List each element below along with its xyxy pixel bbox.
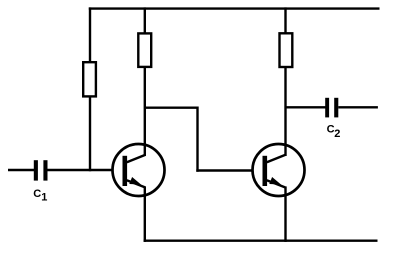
wire coupling horizontal upper — [145, 106, 198, 108]
wire R3/Q2 collector vertical top — [284, 7, 286, 34]
resistor R1 — [83, 62, 96, 96]
resistor R3 — [280, 33, 293, 67]
wire Q2 emitter leg — [284, 186, 286, 242]
wire C1 to Q1 base — [48, 169, 114, 171]
wire top supply rail — [89, 7, 380, 9]
wire Q2 collector to C2 — [286, 106, 327, 108]
wire C2 output lead — [338, 106, 378, 108]
wire R1 top leg — [89, 7, 91, 63]
svg-text:1: 1 — [41, 192, 47, 204]
wire coupling to Q2 base — [196, 169, 253, 171]
wire bottom rail — [144, 239, 378, 241]
transistor Q1 — [113, 144, 165, 196]
svg-text:C: C — [33, 188, 41, 200]
wire R1 bottom leg — [89, 96, 91, 171]
wire C1 input lead — [8, 169, 35, 171]
wire R2 bottom to Q1 collector — [144, 67, 146, 156]
wire R2/Q1 collector vertical top — [144, 7, 146, 34]
capacitor C2 — [325, 98, 338, 118]
capacitor C1 — [34, 160, 48, 180]
wire Q1 emitter leg — [144, 186, 146, 242]
wire coupling vertical — [196, 107, 198, 172]
wire R3 bottom to Q2 collector — [284, 67, 286, 157]
svg-text:2: 2 — [334, 128, 340, 140]
resistor R2 — [138, 33, 151, 67]
label C2 — [327, 124, 341, 140]
label C1 — [33, 188, 47, 204]
transistor Q2 — [253, 144, 305, 196]
